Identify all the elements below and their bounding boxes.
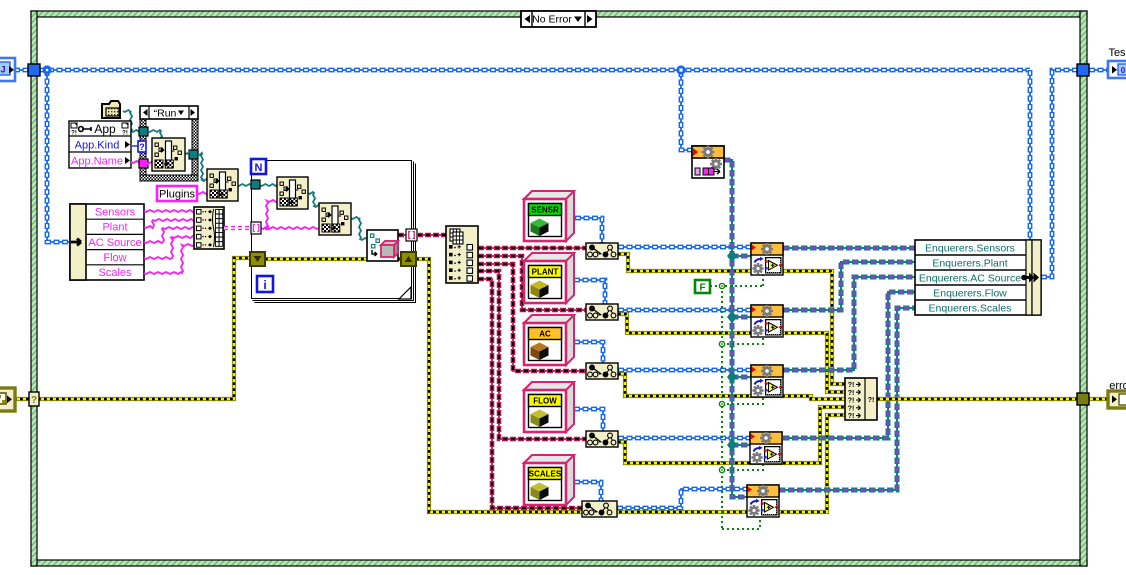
subVI PLANT — [524, 253, 574, 303]
for loop N terminal — [251, 159, 266, 174]
wire: refnum 4 to class node U4 — [478, 271, 586, 439]
wire: strict VI ref trunk — [724, 160, 747, 497]
wire: F1 out to tunnel — [185, 152, 189, 154]
merge errors node — [845, 378, 877, 420]
wire: refnum array loop to index array — [417, 234, 446, 236]
async call node A5 — [747, 485, 779, 517]
svg-text:N: N — [255, 162, 263, 174]
Run case input tunnel (string) — [139, 159, 148, 168]
async call node A4 — [750, 432, 782, 464]
svg-text:i: i — [263, 278, 266, 292]
wire: trunk branch to A4 — [732, 444, 750, 446]
wire: queue refnum branch to unbundle node — [47, 70, 69, 242]
wire: SENSR static ref to U1 — [575, 218, 602, 243]
wire: error U1 to merge errors row1 — [618, 254, 845, 384]
wire: trunk branch to A1 — [732, 255, 751, 257]
wire: A2 out to Enquerers.Plant — [783, 262, 915, 310]
wire: Plant string — [144, 219, 194, 228]
loop auto-index output tunnel [] — [406, 229, 417, 241]
wire: A1 out to Enquerers.Sensors — [783, 247, 915, 249]
svg-text:FLOW: FLOW — [533, 397, 557, 406]
wire: error in to loop left shift register — [14, 258, 250, 399]
wire: App.Name to Run case — [131, 161, 140, 163]
loop input tunnel (path) — [251, 180, 260, 189]
wire: refnum 3 to class node U3 — [478, 264, 586, 371]
wire: U5 class ref to async A5 — [617, 489, 747, 508]
case selector label: No Error — [521, 11, 596, 27]
build array node — [194, 207, 224, 249]
svg-text:?: ? — [139, 142, 145, 152]
boolean constant F — [695, 280, 710, 294]
svg-text:AC Source: AC Source — [88, 237, 141, 249]
wire: F branch to A2 — [722, 337, 763, 344]
svg-text:App.Name: App.Name — [71, 156, 123, 168]
svg-text:?!: ?! — [848, 390, 855, 397]
subVI SCALES — [524, 455, 574, 505]
wire: A3 out to Enquerers.AC Source — [783, 277, 915, 370]
svg-text:App.Kind: App.Kind — [75, 140, 120, 152]
wire: PLANT static ref to U2 — [574, 280, 605, 304]
wire: error U2 to merge errors row2 — [618, 314, 845, 392]
tunnel: selector ? (left border) — [29, 392, 39, 406]
svg-text:Enquerers.Flow: Enquerers.Flow — [933, 288, 1007, 300]
svg-text:?!: ?! — [848, 405, 855, 412]
wire: Sensors string — [144, 210, 194, 212]
wire: F constant to A1 branch — [710, 285, 763, 287]
wire: AC static ref to U3 — [574, 342, 603, 363]
svg-text:?!: ?! — [848, 413, 855, 420]
wire: AC Source string — [144, 227, 194, 243]
svg-text:Scales: Scales — [98, 267, 132, 279]
wire: U2 class ref to async A2 — [618, 309, 751, 311]
wire: error U3 to merge errors row3 — [618, 374, 845, 399]
wire: tunnel to F1 — [148, 130, 162, 139]
wire: merged error to error out — [877, 397, 1108, 401]
wire: queue refnum branch to async call node U6 — [681, 70, 693, 150]
wire: Flow string — [144, 236, 194, 259]
wire: F branch to A4 — [722, 464, 763, 470]
async call node A1 — [751, 243, 783, 275]
Run case input tunnel (path) — [139, 127, 148, 136]
function F3 (inside loop) — [277, 177, 308, 209]
wire: folder path to Run case — [123, 110, 140, 132]
svg-text:Enquerers.Plant: Enquerers.Plant — [932, 258, 1007, 270]
open VI reference node (inside loop) — [367, 230, 398, 261]
case structure: Run — [140, 106, 198, 181]
wire: VI refnum to loop output tunnel — [398, 234, 407, 236]
string constant: Plugins — [157, 186, 197, 201]
wire: FLOW static ref to U4 — [574, 409, 603, 431]
right shift register — [401, 252, 416, 266]
wire: F3 to F4 — [308, 192, 319, 207]
svg-text:Sensors: Sensors — [95, 206, 136, 218]
wire: string array element to F3 — [261, 200, 277, 229]
indicator: Test queue out (right edge, clipped) — [1108, 47, 1126, 78]
async call node U6 (top) — [692, 146, 724, 178]
svg-text:Enquerers.AC Source: Enquerers.AC Source — [919, 273, 1021, 285]
bundle node: Enquerers.* — [915, 240, 1041, 315]
wire: error from loop to merge errors row5 — [416, 259, 845, 512]
svg-text:F: F — [699, 283, 705, 294]
wire: refnum 2 to class node U2 — [478, 256, 586, 310]
junction: pink wire — [265, 226, 270, 231]
wire: error through loop shift registers — [265, 257, 401, 261]
svg-text:?!: ?! — [71, 131, 77, 137]
svg-text:0: 0 — [1121, 66, 1126, 75]
svg-text:Enquerers.Scales: Enquerers.Scales — [929, 303, 1012, 315]
svg-text:App: App — [94, 122, 116, 136]
svg-text:“Run: “Run — [154, 108, 177, 120]
svg-text:Plant: Plant — [102, 222, 127, 234]
wire: path into loop tunnel — [237, 184, 251, 186]
indicator: error out (right edge, clipped) — [1108, 380, 1126, 408]
svg-text:?!: ?! — [868, 397, 875, 404]
svg-text:?!: ?! — [848, 398, 855, 405]
wire: string tunnel to F1 — [146, 162, 152, 164]
svg-text:?: ? — [31, 395, 37, 406]
wire: SCALES static ref to U5 — [574, 482, 601, 501]
wire: F trunk down — [721, 286, 723, 529]
wire: App.Kind to case selector — [131, 145, 139, 147]
svg-text:Flow: Flow — [103, 252, 126, 264]
wire: refnum 5 to class node U5 — [478, 279, 582, 508]
function F4 (inside loop) — [319, 203, 351, 235]
junction: green wire — [719, 283, 724, 472]
tunnel: queue in (left border) — [28, 64, 40, 76]
Run case output tunnel — [189, 150, 198, 159]
control: queue refnum (left edge, clipped) — [0, 58, 15, 81]
svg-text:SENSR: SENSR — [531, 206, 559, 215]
wire: F4 to open VI reference — [351, 217, 367, 240]
wire: Run case out to F2 — [198, 153, 207, 181]
to-more-specific node U1 — [586, 243, 618, 259]
unbundle node: Sensors/Plant/AC Source/Flow/Scales — [70, 204, 144, 280]
Run case selector tunnel ? — [138, 141, 146, 152]
svg-text:AC: AC — [539, 330, 551, 339]
wire: U1 class ref to async A1 — [618, 246, 751, 248]
junction: queue wire at U6 branch — [676, 65, 685, 74]
wire: queue refnum main horizontal — [14, 69, 1030, 71]
wire: A4 out to Enquerers.Flow — [783, 292, 915, 438]
for loop i terminal — [257, 276, 273, 292]
wire: Scales string — [144, 244, 194, 274]
wire: path tunnel to node F3 — [260, 184, 277, 186]
to-more-specific node U2 — [586, 304, 618, 320]
junction: trunk diamonds — [727, 250, 737, 452]
junction: queue wire — [42, 65, 51, 74]
function F2 — [207, 169, 238, 201]
svg-text:PLANT: PLANT — [532, 268, 559, 277]
wire: F stub up to A1 — [762, 275, 764, 286]
wire: A5 out to Enquerers.Scales — [779, 308, 915, 490]
index array node — [446, 226, 478, 283]
wire: bundle output to Test indicator — [1041, 70, 1108, 277]
svg-text:?!: ?! — [848, 382, 855, 389]
svg-text:Plugins: Plugins — [159, 189, 196, 201]
property node: App (App.Kind / App.Name) — [69, 121, 131, 168]
svg-text:SCALES: SCALES — [529, 470, 562, 479]
subVI AC — [524, 315, 574, 365]
svg-text:Tes: Tes — [1108, 47, 1126, 59]
async call node A3 — [751, 365, 783, 397]
loop auto-index input tunnel [] — [251, 222, 261, 234]
wire: refnum 1 to class node U1 — [478, 247, 586, 249]
wire: trunk branch to A2 — [732, 316, 751, 318]
wire: F stub into A1 bottom — [762, 264, 764, 275]
for loop structure — [252, 161, 416, 303]
wire: U3 class ref to async A3 — [618, 369, 751, 371]
left shift register — [250, 252, 265, 266]
wire: Plugins to F2 — [197, 192, 207, 194]
to-more-specific node U3 — [586, 363, 618, 379]
wire: queue refnum branch into bundle node — [1029, 70, 1031, 241]
wire: trunk branch to A3 — [732, 376, 751, 378]
wire: F branch to A3 — [722, 397, 763, 404]
svg-text:No Error: No Error — [532, 14, 572, 26]
tunnel: Test ref out (right border) — [1077, 64, 1089, 76]
to-more-specific node U5 — [582, 501, 617, 517]
function F1 (inside Run case) — [152, 138, 185, 171]
folder path constant — [102, 101, 120, 118]
to-more-specific node U4 — [586, 431, 618, 447]
wire: U4 class ref to async A4 — [618, 437, 750, 439]
wire: string branch to F4 — [267, 227, 319, 229]
subVI SENSR — [524, 191, 574, 241]
subVI FLOW — [524, 382, 574, 432]
svg-text:J: J — [0, 65, 5, 75]
wire: F branch to A5 — [722, 517, 760, 529]
tunnel: error out (right border) — [1077, 393, 1089, 405]
svg-text:Enquerers.Sensors: Enquerers.Sensors — [925, 243, 1015, 255]
control: error in (left edge, clipped) — [0, 388, 15, 411]
async call node A2 — [751, 305, 783, 337]
svg-text:?!: ?! — [122, 131, 128, 137]
wire: string array to loop — [224, 226, 251, 230]
wire: error U4 to merge errors row4 — [618, 407, 845, 463]
